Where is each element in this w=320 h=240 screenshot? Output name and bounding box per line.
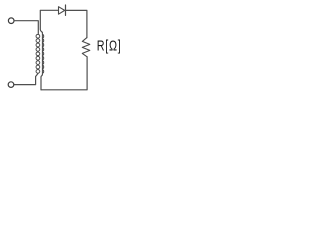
wire resistor bottom to bottom rail xyxy=(41,57,87,90)
resistor R (zigzag) xyxy=(82,38,90,57)
diode D1 cathode bar xyxy=(65,5,67,15)
terminal T2 (bottom-left input) xyxy=(8,82,14,88)
wire diode to resistor top xyxy=(66,10,87,37)
diode D1 (triangle) xyxy=(59,7,65,15)
wire T1 to primary top xyxy=(14,21,38,34)
transformer secondary winding L2 (right line with loop bumps) xyxy=(42,33,43,75)
transformer primary winding L1 (left ring column) xyxy=(36,34,40,73)
wire primary bottom to terminal T2 xyxy=(14,74,38,85)
wire secondary top to diode anode xyxy=(40,10,58,33)
svg-text:R[Ω]: R[Ω] xyxy=(97,37,122,54)
terminal T1 (top-left input) xyxy=(8,18,14,24)
wire bottom rail to secondary bottom xyxy=(41,75,42,90)
